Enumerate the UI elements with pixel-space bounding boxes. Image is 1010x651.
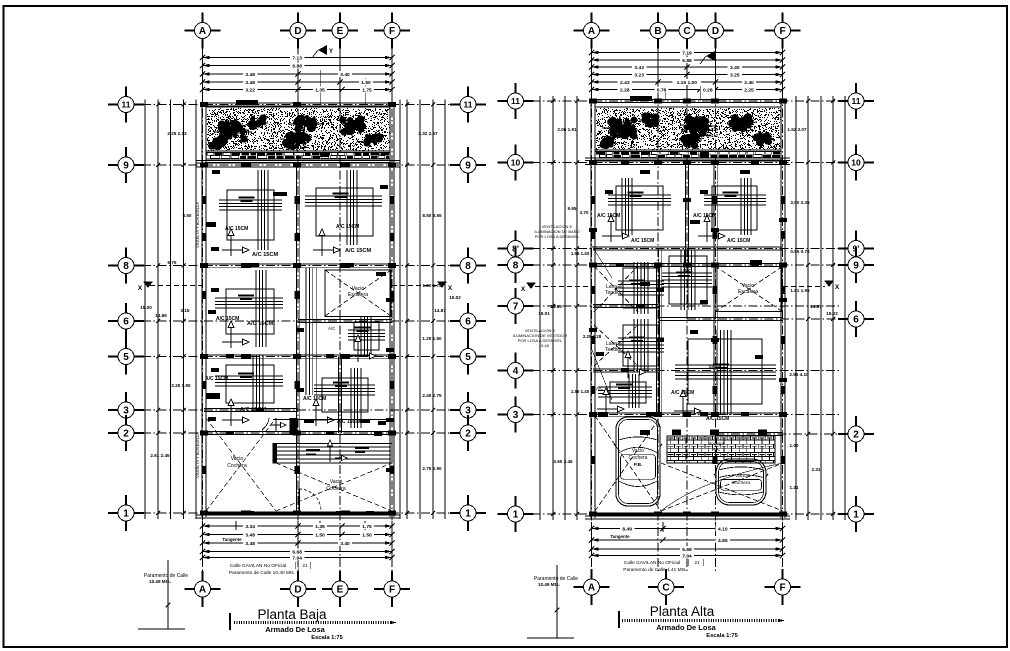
svg-text:15.02: 15.02: [449, 295, 461, 300]
svg-text:3.15: 3.15: [181, 308, 190, 313]
svg-text:1.35: 1.35: [315, 524, 325, 530]
svg-text:A/C 15CM: A/C 15CM: [693, 213, 716, 219]
svg-text:8: 8: [513, 261, 519, 272]
svg-text:Calle GAVILAN No OFicial: Calle GAVILAN No OFicial: [230, 563, 286, 569]
svg-text:7.19: 7.19: [682, 50, 692, 56]
svg-text:Escala 1:75: Escala 1:75: [706, 633, 738, 639]
svg-text:A/C 15CM: A/C 15CM: [216, 316, 239, 322]
svg-text:A: A: [588, 583, 595, 594]
svg-text:1.55 1.40: 1.55 1.40: [571, 251, 590, 256]
svg-text:VIGUETA Y BOVEDILLA: VIGUETA Y BOVEDILLA: [195, 202, 200, 248]
svg-text:A/C 15CM: A/C 15CM: [303, 396, 326, 402]
svg-text:2.32 2.57: 2.32 2.57: [418, 131, 438, 136]
svg-text:E: E: [337, 585, 344, 596]
svg-text:1: 1: [465, 509, 471, 520]
svg-text:A/C 15CM: A/C 15CM: [247, 321, 273, 327]
svg-text:21: 21: [302, 563, 308, 569]
svg-text:15.02: 15.02: [826, 311, 838, 316]
svg-text:3.48: 3.48: [245, 532, 255, 538]
svg-text:3.40: 3.40: [340, 541, 350, 547]
svg-text:2.31: 2.31: [812, 467, 821, 472]
svg-text:Jardin: Jardin: [706, 127, 719, 132]
svg-text:3.25: 3.25: [730, 72, 740, 78]
svg-text:2.95 4.10: 2.95 4.10: [789, 372, 809, 377]
svg-text:6.88: 6.88: [292, 63, 302, 69]
svg-text:Cochera: Cochera: [732, 480, 750, 486]
svg-text:F: F: [389, 585, 395, 596]
svg-text:3.48: 3.48: [245, 541, 255, 547]
svg-text:8.49: 8.49: [622, 526, 632, 532]
svg-text:1.75: 1.75: [362, 87, 372, 93]
svg-text:POR LOSA A DESNIVEL: POR LOSA A DESNIVEL: [535, 234, 580, 239]
svg-text:Calle GAVILAN No OFicial: Calle GAVILAN No OFicial: [624, 560, 680, 566]
svg-text:Escala 1:75: Escala 1:75: [311, 635, 343, 641]
svg-text:6: 6: [123, 317, 129, 328]
svg-text:4: 4: [513, 366, 519, 377]
svg-text:3.34: 3.34: [245, 524, 255, 530]
svg-text:X: X: [835, 284, 840, 291]
svg-text:0.78: 0.78: [657, 87, 667, 93]
left plan: Planta Baja (ground floor slab plan): [142, 104, 452, 106]
svg-text:A/C 15CM: A/C 15CM: [225, 226, 248, 232]
svg-text:Cochera: Cochera: [227, 463, 247, 469]
svg-text:E: E: [337, 26, 344, 37]
svg-text:3.40: 3.40: [340, 72, 350, 78]
svg-text:2.06 1.91: 2.06 1.91: [557, 127, 577, 132]
svg-text:1: 1: [853, 510, 859, 521]
svg-text:Paramento de Calle 1.41 Mts.: Paramento de Calle 1.41 Mts.: [623, 567, 686, 573]
svg-text:3.00 3.35: 3.00 3.35: [790, 200, 810, 205]
svg-text:2.40: 2.40: [744, 80, 754, 86]
svg-text:2.25 2.13: 2.25 2.13: [167, 131, 187, 136]
svg-text:A/C: A/C: [596, 386, 603, 391]
svg-text:6: 6: [853, 315, 859, 326]
svg-text:Tangente: Tangente: [610, 534, 630, 539]
svg-text:15.00: 15.00: [140, 305, 152, 310]
svg-text:14.87: 14.87: [434, 308, 446, 313]
svg-text:1: 1: [513, 510, 519, 521]
svg-text:3.22: 3.22: [245, 87, 255, 93]
svg-text:0.95 0.70: 0.95 0.70: [790, 249, 810, 254]
svg-text:1.81 1.95: 1.81 1.95: [790, 288, 810, 293]
svg-text:VIGUETA Y BOVEDILLA: VIGUETA Y BOVEDILLA: [195, 432, 200, 478]
svg-text:Vacio: Vacio: [632, 448, 644, 454]
svg-text:Vacio: Vacio: [231, 456, 244, 462]
svg-text:1.75: 1.75: [362, 524, 372, 530]
svg-text:Vacio: Vacio: [330, 479, 343, 485]
svg-text:9: 9: [853, 261, 859, 272]
svg-text:Tangente: Tangente: [222, 537, 242, 542]
svg-text:2.61 2.45: 2.61 2.45: [150, 453, 170, 458]
svg-text:5: 5: [123, 352, 129, 363]
svg-text:P.A.: P.A.: [712, 447, 720, 452]
svg-text:8.50 8.65: 8.50 8.65: [422, 213, 442, 218]
svg-text:A/C 15CM: A/C 15CM: [671, 390, 694, 396]
svg-text:D: D: [294, 585, 301, 596]
svg-text:3: 3: [513, 410, 519, 421]
svg-text:10: 10: [511, 158, 521, 168]
svg-text:1.00: 1.00: [790, 443, 799, 448]
svg-text:14.86: 14.86: [550, 304, 562, 309]
svg-text:3.70: 3.70: [580, 210, 589, 215]
svg-text:A/C 15CM: A/C 15CM: [706, 416, 729, 422]
svg-text:Planta Baja: Planta Baja: [257, 607, 327, 622]
svg-text:3: 3: [123, 406, 129, 417]
svg-text:2.40 2.75: 2.40 2.75: [422, 393, 442, 398]
svg-text:Armado De Losa: Armado De Losa: [656, 623, 716, 632]
svg-text:Cochera: Cochera: [629, 455, 648, 461]
svg-text:2.25 1.90: 2.25 1.90: [171, 383, 191, 388]
svg-text:F: F: [389, 26, 395, 37]
svg-text:11: 11: [511, 96, 520, 106]
svg-text:Escalera: Escalera: [738, 289, 758, 295]
svg-text:F: F: [779, 583, 785, 594]
svg-text:1.50: 1.50: [361, 80, 371, 86]
svg-text:3.43: 3.43: [634, 65, 644, 71]
svg-text:6.75: 6.75: [168, 260, 177, 265]
svg-text:1.15 1.00: 1.15 1.00: [677, 80, 698, 86]
svg-text:6.68: 6.68: [292, 549, 302, 555]
svg-text:A/C 15CM: A/C 15CM: [597, 213, 620, 219]
svg-text:W.C.: W.C.: [683, 268, 693, 273]
svg-text:A/C 15CM: A/C 15CM: [727, 238, 750, 244]
svg-text:A/C 15CM: A/C 15CM: [240, 407, 266, 413]
svg-text:Y: Y: [329, 49, 333, 55]
svg-text:8: 8: [465, 261, 471, 272]
svg-text:10: 10: [851, 158, 861, 168]
svg-text:1.20 1.50: 1.20 1.50: [422, 336, 442, 341]
svg-text:3.60 3.46: 3.60 3.46: [553, 459, 573, 464]
svg-text:6.68: 6.68: [682, 547, 692, 553]
svg-text:P.B.: P.B.: [634, 462, 642, 467]
svg-text:A/C 15CM: A/C 15CM: [336, 224, 359, 230]
svg-text:3.48: 3.48: [245, 80, 255, 86]
svg-text:A/C 15CM: A/C 15CM: [631, 238, 654, 244]
svg-text:8.50: 8.50: [183, 213, 192, 218]
svg-text:Paramento de Calle 10.40 Mts.: Paramento de Calle 10.40 Mts.: [229, 570, 295, 576]
svg-text:2.43: 2.43: [620, 80, 630, 86]
svg-text:C: C: [683, 26, 690, 37]
svg-text:Bodega: Bodega: [708, 441, 724, 446]
svg-text:A: A: [199, 26, 206, 37]
svg-text:1.31: 1.31: [790, 485, 799, 490]
svg-text:5: 5: [465, 352, 471, 363]
svg-text:3.40: 3.40: [730, 65, 740, 71]
svg-text:X: X: [138, 285, 143, 292]
svg-text:1.35: 1.35: [315, 87, 325, 93]
svg-text:6.88: 6.88: [682, 58, 692, 64]
svg-text:B: B: [654, 26, 661, 37]
svg-text:9: 9: [123, 161, 129, 172]
svg-text:6: 6: [465, 317, 471, 328]
svg-text:9: 9: [465, 161, 471, 172]
svg-text:7.04: 7.04: [682, 553, 692, 559]
svg-text:4.10: 4.10: [718, 526, 728, 532]
svg-text:0-40: 0-40: [541, 343, 550, 348]
svg-text:A: A: [199, 585, 206, 596]
svg-text:D: D: [294, 26, 301, 37]
svg-text:9.65: 9.65: [568, 206, 577, 211]
svg-text:X: X: [448, 285, 453, 292]
svg-text:D: D: [712, 26, 719, 37]
svg-text:Cochera: Cochera: [326, 486, 346, 492]
svg-text:21: 21: [694, 560, 700, 566]
svg-text:2: 2: [853, 430, 859, 441]
svg-text:A/C 15CM: A/C 15CM: [345, 248, 371, 254]
svg-text:7.13: 7.13: [292, 55, 302, 61]
svg-text:Vacio: Vacio: [735, 473, 747, 479]
svg-text:2.25: 2.25: [744, 87, 754, 93]
svg-text:11: 11: [852, 96, 861, 106]
svg-text:10x10: 10x10: [706, 133, 719, 138]
svg-text:14.86: 14.86: [155, 313, 167, 318]
svg-text:1.50: 1.50: [362, 532, 372, 538]
svg-text:A: A: [588, 26, 595, 37]
svg-text:11: 11: [122, 100, 131, 110]
svg-text:Armado De Losa: Armado De Losa: [265, 625, 325, 634]
svg-text:2: 2: [465, 429, 471, 440]
svg-text:1.52 2.07: 1.52 2.07: [787, 127, 807, 132]
svg-text:3.48: 3.48: [245, 72, 255, 78]
svg-text:F: F: [779, 26, 785, 37]
svg-text:A/C 15CM: A/C 15CM: [252, 252, 278, 258]
svg-text:4.85: 4.85: [718, 538, 728, 544]
svg-text:2.28: 2.28: [620, 87, 630, 93]
svg-text:0.28: 0.28: [703, 87, 713, 93]
svg-text:3: 3: [465, 406, 471, 417]
svg-text:7: 7: [513, 302, 519, 313]
svg-text:14.87: 14.87: [810, 304, 822, 309]
svg-text:1.55 1.40: 1.55 1.40: [571, 389, 590, 394]
svg-text:2: 2: [123, 429, 129, 440]
right plan: Planta Alta (upper floor slab plan): [532, 100, 841, 102]
svg-text:8: 8: [123, 261, 129, 272]
svg-text:A/C 15CM: A/C 15CM: [205, 376, 228, 382]
svg-text:Escalera: Escalera: [348, 292, 368, 298]
svg-text:2.75 2.90: 2.75 2.90: [422, 466, 442, 471]
svg-text:X: X: [521, 286, 526, 293]
svg-text:A/C: A/C: [328, 326, 335, 331]
svg-text:1: 1: [123, 509, 129, 520]
svg-text:C: C: [662, 583, 669, 594]
svg-text:7.04: 7.04: [292, 555, 302, 561]
svg-text:3.23: 3.23: [634, 72, 644, 78]
svg-text:SALA: SALA: [709, 364, 722, 369]
svg-text:1.50: 1.50: [315, 532, 325, 538]
svg-text:15.01: 15.01: [538, 311, 550, 316]
svg-text:11: 11: [464, 100, 473, 110]
svg-text:Planta Alta: Planta Alta: [650, 604, 715, 619]
